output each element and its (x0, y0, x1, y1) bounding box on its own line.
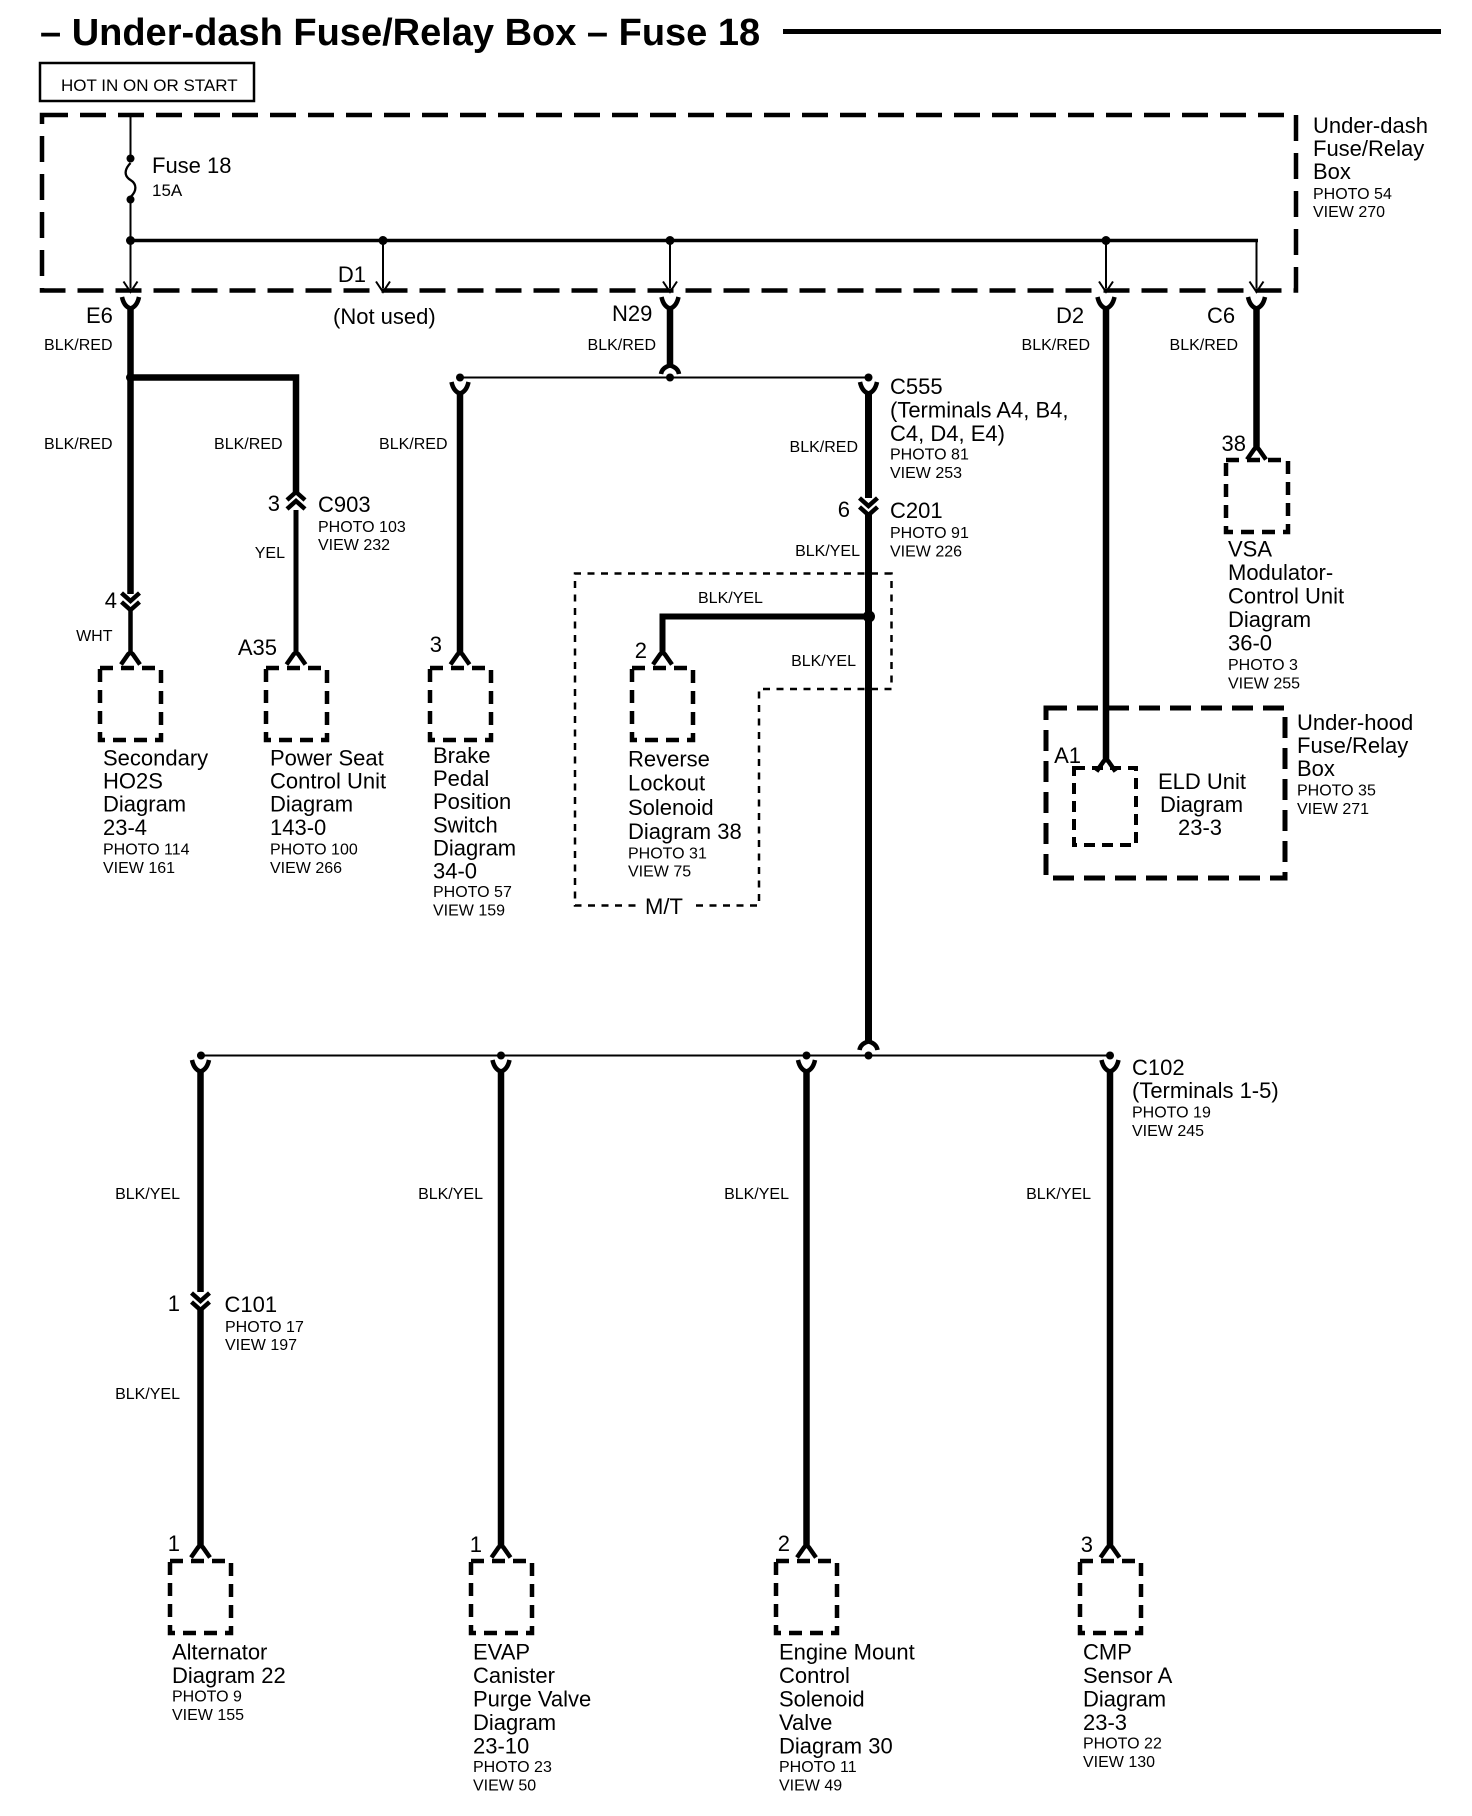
svg-text:VIEW 155: VIEW 155 (172, 1707, 244, 1724)
alternator box (170, 1561, 231, 1633)
svg-text:143-0: 143-0 (270, 815, 326, 840)
terminal fork alternator wire (192, 1060, 209, 1072)
power seat control unit box (266, 668, 327, 740)
svg-text:– Under-dash Fuse/Relay Box –: – Under-dash Fuse/Relay Box – Fuse 18 (40, 12, 760, 54)
terminal fork CMP wire (1102, 1060, 1119, 1072)
svg-text:HO2S: HO2S (103, 769, 163, 794)
svg-text:BLK/RED: BLK/RED (44, 436, 112, 453)
pin chevron engine mount (797, 1546, 816, 1558)
svg-text:Solenoid: Solenoid (628, 795, 714, 820)
svg-text:BLK/RED: BLK/RED (44, 337, 112, 354)
svg-text:Diagram: Diagram (1160, 792, 1243, 817)
svg-text:PHOTO 54: PHOTO 54 (1313, 186, 1392, 203)
svg-text:PHOTO 19: PHOTO 19 (1132, 1105, 1211, 1122)
connector C101 (168, 1291, 304, 1354)
svg-text:Power Seat: Power Seat (270, 746, 384, 771)
svg-text:PHOTO 114: PHOTO 114 (103, 841, 190, 858)
svg-text:BLK/RED: BLK/RED (1022, 337, 1090, 354)
svg-text:1: 1 (470, 1532, 482, 1557)
svg-text:(Terminals A4, B4,: (Terminals A4, B4, (890, 398, 1069, 423)
svg-text:VIEW 245: VIEW 245 (1132, 1123, 1204, 1140)
svg-text:Position: Position (433, 789, 511, 814)
svg-text:BLK/YEL: BLK/YEL (1026, 1186, 1091, 1203)
svg-text:Solenoid: Solenoid (779, 1686, 865, 1711)
svg-text:23-10: 23-10 (473, 1733, 529, 1758)
terminal fork brake wire (452, 382, 469, 394)
svg-text:N29: N29 (612, 301, 652, 326)
svg-text:Modulator-: Modulator- (1228, 560, 1333, 585)
svg-text:D2: D2 (1056, 303, 1084, 328)
svg-text:A35: A35 (238, 635, 277, 660)
svg-text:Diagram 22: Diagram 22 (172, 1663, 286, 1688)
svg-text:Sensor A: Sensor A (1083, 1663, 1173, 1688)
svg-text:BLK/YEL: BLK/YEL (795, 543, 860, 560)
connector C903 (268, 491, 406, 554)
svg-text:4: 4 (105, 588, 117, 613)
fuse Fuse 18 15A (126, 153, 232, 204)
M/T region box (575, 574, 892, 906)
pin chevron VSA (1247, 448, 1266, 460)
wire stub D2 with arrow (1099, 241, 1113, 293)
svg-text:ELD Unit: ELD Unit (1158, 769, 1246, 794)
svg-text:Diagram: Diagram (1083, 1686, 1166, 1711)
svg-text:VIEW 75: VIEW 75 (628, 863, 691, 880)
svg-text:PHOTO 35: PHOTO 35 (1297, 783, 1376, 800)
svg-text:Reverse: Reverse (628, 747, 710, 772)
svg-text:Purge Valve: Purge Valve (473, 1686, 591, 1711)
svg-text:36-0: 36-0 (1228, 631, 1272, 656)
svg-text:Fuse/Relay: Fuse/Relay (1297, 733, 1408, 758)
wire BLK/RED brake (457, 393, 464, 652)
svg-text:C555: C555 (890, 374, 943, 399)
node junction brake (456, 374, 464, 382)
terminal fork engine mount wire (798, 1060, 815, 1072)
VSA modulator-control unit box (1226, 460, 1288, 532)
wire fuse to bus (130, 203, 132, 240)
wire WHT (128, 610, 133, 652)
svg-text:3: 3 (1081, 1532, 1093, 1557)
svg-text:Diagram: Diagram (433, 835, 516, 860)
node junction C555 (865, 374, 873, 382)
svg-text:23-3: 23-3 (1083, 1710, 1127, 1735)
svg-text:VIEW 130: VIEW 130 (1083, 1754, 1155, 1771)
svg-text:VIEW 271: VIEW 271 (1297, 801, 1369, 818)
wire from box top to fuse (130, 115, 132, 155)
svg-text:HOT IN ON OR START: HOT IN ON OR START (61, 76, 238, 95)
wire YEL C903 to A35 (294, 510, 299, 652)
power seat control unit label (270, 746, 386, 877)
pin chevron alternator (191, 1546, 210, 1558)
svg-text:C101: C101 (225, 1292, 278, 1317)
under-hood fuse/relay box label (1297, 710, 1413, 818)
svg-text:PHOTO 22: PHOTO 22 (1083, 1735, 1162, 1752)
svg-text:PHOTO 31: PHOTO 31 (628, 846, 707, 863)
wire D2 BLK/RED (1103, 308, 1110, 760)
svg-text:A1: A1 (1054, 743, 1081, 768)
svg-text:BLK/RED: BLK/RED (1170, 337, 1238, 354)
VSA modulator-control unit label (1228, 537, 1344, 693)
svg-text:(Not used): (Not used) (333, 304, 436, 329)
node bus D2 (1102, 236, 1111, 245)
under-dash fuse/relay box (42, 115, 1296, 291)
node reverse branch (863, 611, 875, 623)
under-hood fuse/relay box (1046, 708, 1285, 878)
svg-text:Secondary: Secondary (103, 746, 208, 771)
svg-text:D1: D1 (338, 262, 366, 287)
brake pedal position switch label (433, 743, 516, 920)
svg-text:Fuse 18: Fuse 18 (152, 153, 232, 178)
svg-text:Alternator: Alternator (172, 1639, 267, 1664)
reverse lockout solenoid box (632, 668, 693, 740)
svg-text:2: 2 (778, 1531, 790, 1556)
reverse lockout solenoid label (628, 747, 742, 881)
wire BLK/YEL EVAP (498, 1071, 505, 1545)
svg-text:C903: C903 (318, 492, 371, 517)
svg-text:6: 6 (838, 497, 850, 522)
wire branch E6 to C903 (131, 378, 297, 493)
wire stub D1 with arrow (376, 241, 390, 293)
svg-text:34-0: 34-0 (433, 859, 477, 884)
wire BLK/YEL engine mount (803, 1071, 810, 1545)
svg-text:1: 1 (168, 1291, 180, 1316)
svg-text:C4, D4, E4): C4, D4, E4) (890, 421, 1005, 446)
label HOT IN ON OR START (40, 63, 254, 101)
node bus C201 (865, 1052, 873, 1060)
svg-text:1: 1 (168, 1531, 180, 1556)
terminal fork D2 (1098, 297, 1115, 309)
svg-text:BLK/YEL: BLK/YEL (791, 653, 856, 670)
svg-text:PHOTO 103: PHOTO 103 (318, 519, 406, 536)
node junction N29 (666, 374, 674, 382)
svg-text:VIEW 232: VIEW 232 (318, 537, 390, 554)
engine mount control solenoid valve label (779, 1639, 915, 1794)
CMP sensor A box (1080, 1561, 1141, 1633)
svg-text:PHOTO 57: PHOTO 57 (433, 884, 512, 901)
svg-text:VIEW 226: VIEW 226 (890, 544, 962, 561)
svg-text:Lockout: Lockout (628, 771, 705, 796)
wire BLK/RED C555 (865, 393, 872, 498)
svg-text:2: 2 (635, 638, 647, 663)
svg-text:Switch: Switch (433, 812, 498, 837)
svg-text:PHOTO 9: PHOTO 9 (172, 1689, 242, 1706)
svg-text:Control Unit: Control Unit (270, 769, 386, 794)
svg-text:Canister: Canister (473, 1663, 555, 1688)
svg-text:23-4: 23-4 (103, 815, 147, 840)
svg-text:BLK/YEL: BLK/YEL (724, 1186, 789, 1203)
svg-text:E6: E6 (86, 303, 113, 328)
terminal fork E6 (122, 297, 139, 309)
engine mount control solenoid valve box (776, 1561, 837, 1633)
terminal fork C6 (1248, 297, 1265, 309)
svg-text:Box: Box (1297, 756, 1335, 781)
svg-text:PHOTO 17: PHOTO 17 (225, 1319, 304, 1336)
brake pedal position switch box (430, 668, 491, 740)
svg-text:Engine Mount: Engine Mount (779, 1639, 915, 1664)
svg-text:38: 38 (1222, 431, 1246, 456)
node bus-fuse (126, 236, 135, 245)
svg-text:VIEW 50: VIEW 50 (473, 1778, 536, 1795)
wire BLK/YEL alternator upper (197, 1071, 204, 1292)
svg-text:PHOTO 23: PHOTO 23 (473, 1759, 552, 1776)
svg-text:Under-hood: Under-hood (1297, 710, 1413, 735)
svg-text:BLK/YEL: BLK/YEL (115, 1186, 180, 1203)
pin chevron A35 (287, 653, 306, 665)
terminal fork N29 (662, 297, 679, 309)
label M/T (638, 894, 690, 919)
svg-text:VIEW 270: VIEW 270 (1313, 204, 1385, 221)
connector C102 label (1132, 1055, 1279, 1140)
wire stub E6 with arrow (124, 241, 138, 293)
pin chevron EVAP (492, 1546, 511, 1558)
connector 4 on E6 wire (105, 588, 140, 613)
pin chevron CMP (1101, 1546, 1120, 1558)
svg-text:PHOTO 91: PHOTO 91 (890, 525, 969, 542)
wire BLK/YEL CMP (1107, 1071, 1114, 1545)
secondary HO2S box (100, 668, 161, 740)
secondary HO2S label (103, 746, 208, 877)
svg-text:VIEW 49: VIEW 49 (779, 1778, 842, 1795)
svg-text:15A: 15A (152, 181, 183, 200)
svg-text:M/T: M/T (645, 894, 683, 919)
svg-text:VIEW 197: VIEW 197 (225, 1337, 297, 1354)
svg-text:Diagram 30: Diagram 30 (779, 1733, 893, 1758)
svg-text:CMP: CMP (1083, 1639, 1132, 1664)
svg-text:Valve: Valve (779, 1710, 832, 1735)
bus wire inside fuse box (130, 239, 1258, 243)
terminal fork heel N29 (661, 366, 679, 375)
svg-text:VIEW 161: VIEW 161 (103, 860, 175, 877)
svg-text:PHOTO 100: PHOTO 100 (270, 841, 358, 858)
svg-text:BLK/RED: BLK/RED (214, 436, 282, 453)
svg-text:Diagram: Diagram (1228, 607, 1311, 632)
svg-text:Diagram 38: Diagram 38 (628, 819, 742, 844)
svg-text:Box: Box (1313, 159, 1351, 184)
svg-text:VIEW 266: VIEW 266 (270, 860, 342, 877)
node bus D1 (379, 236, 388, 245)
svg-text:C102: C102 (1132, 1055, 1185, 1080)
node bus EVAP (497, 1052, 505, 1060)
node E6 branch (126, 373, 135, 382)
EVAP canister purge valve box (471, 1561, 532, 1633)
svg-text:PHOTO 81: PHOTO 81 (890, 447, 969, 464)
title rule (783, 29, 1441, 34)
node bus alternator (197, 1052, 205, 1060)
wire stub N29 with arrow (663, 241, 677, 293)
node bus engine mount (803, 1052, 811, 1060)
svg-text:WHT: WHT (76, 628, 113, 645)
svg-text:Fuse/Relay: Fuse/Relay (1313, 136, 1424, 161)
pin chevron reverse lockout (653, 653, 672, 665)
svg-text:3: 3 (268, 491, 280, 516)
pin chevron brake (451, 653, 470, 665)
node bus C102 (1106, 1052, 1114, 1060)
svg-text:VSA: VSA (1228, 537, 1272, 562)
svg-text:VIEW 253: VIEW 253 (890, 465, 962, 482)
alternator label (172, 1639, 286, 1724)
CMP sensor A label (1083, 1639, 1173, 1771)
wire BLK/YEL C201 (865, 515, 872, 1042)
ELD unit label (1158, 769, 1246, 840)
wire reverse lockout branch (663, 617, 869, 653)
wire C6 BLK/RED (1253, 308, 1260, 448)
svg-text:BLK/YEL: BLK/YEL (418, 1186, 483, 1203)
svg-text:YEL: YEL (255, 545, 285, 562)
connector C201 (838, 497, 969, 561)
svg-text:VIEW 255: VIEW 255 (1228, 676, 1300, 693)
node bus N29 (666, 236, 675, 245)
svg-text:BLK/YEL: BLK/YEL (698, 590, 763, 607)
bottom bus wire (197, 1055, 1110, 1057)
wire N29 stub (667, 308, 674, 366)
terminal fork EVAP wire (493, 1060, 510, 1072)
under-dash fuse/relay box label (1313, 113, 1428, 221)
wire BLK/YEL alternator lower (197, 1310, 204, 1545)
svg-text:(Terminals 1-5): (Terminals 1-5) (1132, 1078, 1279, 1103)
svg-text:Diagram: Diagram (473, 1710, 556, 1735)
svg-text:Brake: Brake (433, 743, 490, 768)
svg-text:BLK/RED: BLK/RED (588, 337, 656, 354)
junction wire thin (460, 377, 869, 379)
svg-text:EVAP: EVAP (473, 1639, 530, 1664)
EVAP canister purge valve label (473, 1639, 591, 1794)
connector C555 label (890, 374, 1069, 482)
svg-text:BLK/RED: BLK/RED (379, 436, 447, 453)
svg-text:BLK/RED: BLK/RED (790, 439, 858, 456)
svg-text:Control: Control (779, 1663, 850, 1688)
ELD unit box (1074, 768, 1136, 845)
svg-text:Control Unit: Control Unit (1228, 584, 1344, 609)
svg-text:PHOTO 11: PHOTO 11 (779, 1759, 857, 1776)
terminal fork C555 wire (860, 382, 877, 394)
svg-text:3: 3 (430, 632, 442, 657)
svg-text:Diagram: Diagram (103, 792, 186, 817)
svg-text:Pedal: Pedal (433, 766, 489, 791)
svg-text:Diagram: Diagram (270, 792, 353, 817)
terminal fork heel C201 bottom (860, 1042, 878, 1051)
svg-text:PHOTO 3: PHOTO 3 (1228, 657, 1298, 674)
svg-text:C201: C201 (890, 498, 943, 523)
svg-text:23-3: 23-3 (1178, 815, 1222, 840)
svg-text:C6: C6 (1207, 303, 1235, 328)
wire stub C6 with arrow (1250, 241, 1264, 293)
pin chevron secondary HO2S (121, 653, 140, 665)
svg-text:VIEW 159: VIEW 159 (433, 903, 505, 920)
svg-text:BLK/YEL: BLK/YEL (115, 1386, 180, 1403)
svg-text:Under-dash: Under-dash (1313, 113, 1428, 138)
wire E6 BLK/RED upper (127, 308, 134, 594)
pin chevron A1 (1097, 760, 1116, 772)
